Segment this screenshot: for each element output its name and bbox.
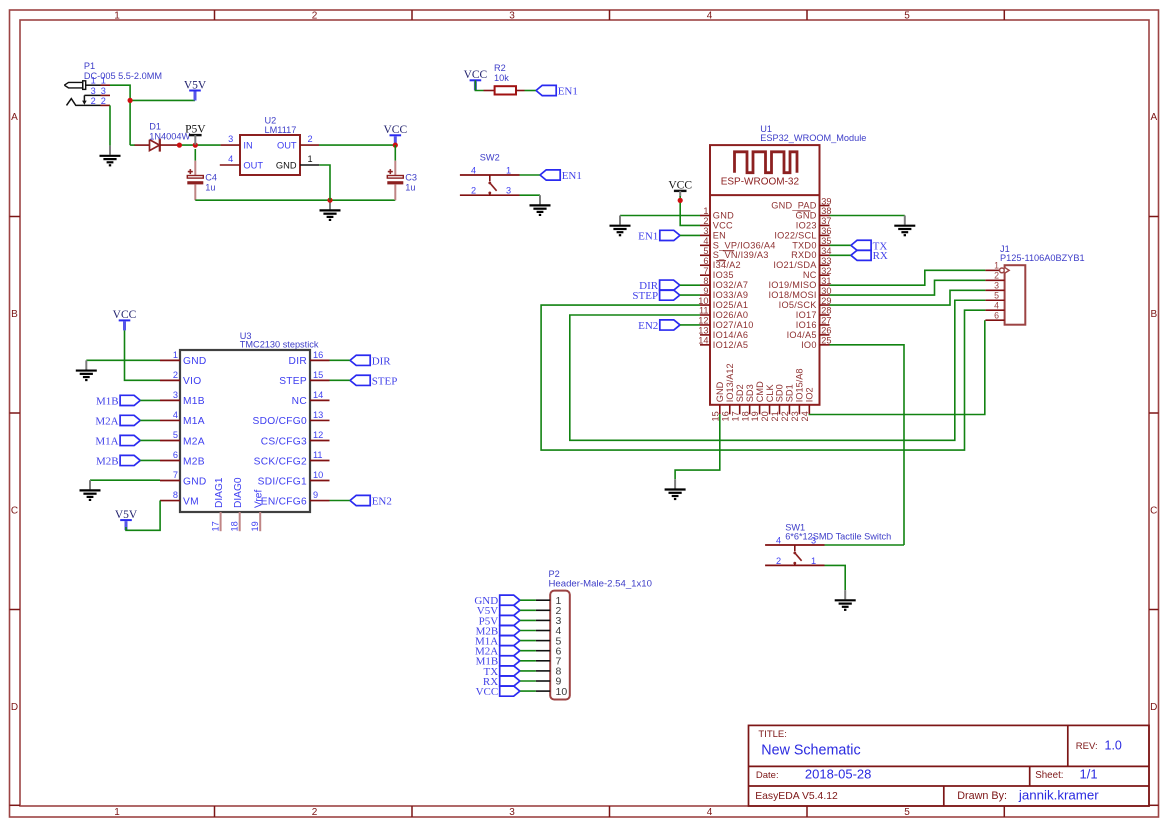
svg-text:EN2: EN2 (638, 320, 658, 332)
connector P1 DC-005 barrel jack symbol (64, 81, 100, 106)
junction VCC node (393, 143, 398, 148)
wire P2.7 to M1B (520, 660, 536, 662)
svg-text:EN1: EN1 (558, 85, 578, 97)
IC U1 ESP32 module body (710, 145, 820, 405)
svg-text:P2: P2 (549, 569, 560, 579)
U2 reference designator (265, 116, 277, 126)
SW1 pin 2 (776, 556, 781, 566)
P2 pin 4 (536, 625, 562, 637)
U1 pin 12 IO27/A10 (698, 316, 753, 330)
svg-text:15: 15 (710, 411, 720, 421)
U3 pin 14 NC (292, 390, 330, 407)
svg-text:1: 1 (308, 154, 313, 164)
svg-text:ESP32_WROOM_Module: ESP32_WROOM_Module (760, 133, 866, 143)
svg-text:VCC: VCC (668, 179, 692, 191)
svg-text:M2A: M2A (183, 436, 205, 447)
svg-text:C: C (1150, 505, 1157, 516)
svg-text:Header-Male-2.54_1x10: Header-Male-2.54_1x10 (549, 579, 652, 590)
U3 pin 11 SCK/CFG2 (254, 450, 330, 467)
svg-text:2: 2 (308, 134, 313, 144)
svg-text:I34/A2: I34/A2 (713, 260, 741, 270)
U1 pin 9 IO33/A9 (700, 286, 748, 300)
U1 pin 22 SD1 (780, 384, 795, 421)
wire SW2.3 to ground (520, 194, 541, 196)
wire SW2.1 to EN1 (520, 174, 541, 176)
svg-text:7: 7 (703, 266, 708, 276)
svg-text:1: 1 (114, 807, 120, 818)
svg-text:IO19/MISO: IO19/MISO (768, 280, 816, 290)
U3 pin 19 Vref (250, 490, 265, 532)
svg-text:14: 14 (698, 336, 708, 346)
U2 value LM1117 (265, 125, 297, 135)
svg-text:3: 3 (509, 10, 515, 21)
svg-text:TMC2130 stepstick: TMC2130 stepstick (240, 340, 319, 350)
svg-text:26: 26 (821, 326, 831, 336)
svg-text:VM: VM (183, 496, 199, 507)
svg-text:IO32/A7: IO32/A7 (713, 280, 748, 290)
svg-text:NC: NC (803, 270, 817, 280)
U1 pin 14 IO12/A5 (698, 336, 748, 350)
svg-text:GND_PAD: GND_PAD (771, 200, 817, 210)
svg-text:EN1: EN1 (638, 230, 658, 242)
U3 pin 13 SDO/CFG0 (253, 410, 330, 427)
svg-text:IO4/A5: IO4/A5 (787, 330, 817, 340)
svg-text:RXD0: RXD0 (791, 250, 817, 260)
SW1 pin 3 (811, 535, 816, 545)
net flag EN2 (U1) (638, 320, 680, 332)
svg-text:STEP: STEP (279, 376, 307, 387)
net flag GND (P2) (474, 595, 520, 607)
U1 pin 2 VCC (700, 216, 733, 230)
net flag RX (P2) (483, 676, 520, 688)
U3 pin 15 STEP (279, 370, 329, 387)
svg-text:17: 17 (730, 411, 740, 421)
U1 pin 7 IO35 (700, 266, 734, 280)
junction VCC at U1 (678, 198, 683, 203)
J1 reference designator (1000, 244, 1010, 254)
net flag M2A (95, 415, 140, 427)
svg-text:IO23: IO23 (796, 220, 817, 230)
U2 pin 4 OUT (220, 154, 264, 170)
svg-text:10: 10 (313, 470, 323, 480)
svg-text:VCC: VCC (113, 309, 137, 321)
svg-text:SD2: SD2 (735, 384, 745, 402)
svg-text:IO27/A10: IO27/A10 (713, 320, 754, 330)
svg-text:IO21/SDA: IO21/SDA (773, 260, 817, 270)
svg-text:4: 4 (776, 535, 781, 545)
svg-text:3: 3 (91, 86, 96, 96)
svg-text:RX: RX (873, 250, 888, 262)
svg-text:16: 16 (720, 411, 730, 421)
svg-text:8: 8 (703, 276, 708, 286)
svg-text:VCC: VCC (713, 220, 733, 230)
svg-text:32: 32 (821, 266, 831, 276)
SW1 reference designator (785, 522, 805, 532)
svg-text:1.0: 1.0 (1105, 738, 1122, 752)
svg-text:4: 4 (173, 410, 178, 420)
net flag P5V (P2) (479, 615, 520, 627)
svg-text:22: 22 (780, 411, 790, 421)
svg-text:7: 7 (173, 470, 178, 480)
svg-text:4: 4 (994, 301, 999, 311)
wire U1.10 to J1.4 (541, 305, 985, 450)
svg-text:5: 5 (173, 430, 178, 440)
wire U1.38 to ground (830, 215, 905, 217)
wire U1.25 to SW1.3 (830, 345, 905, 545)
svg-text:D1: D1 (149, 121, 161, 131)
svg-text:M1B: M1B (96, 395, 119, 407)
svg-text:2: 2 (703, 216, 708, 226)
U1 pin 26 IO4/A5 (787, 326, 832, 340)
svg-text:1/1: 1/1 (1080, 766, 1098, 781)
net flag M1B (96, 395, 140, 407)
svg-text:2: 2 (312, 807, 318, 818)
U3 pin 6 M2B (160, 450, 205, 467)
svg-text:30: 30 (821, 286, 831, 296)
svg-text:3: 3 (173, 390, 178, 400)
U3 value TMC2130 stepstick (240, 340, 319, 350)
U1 pin 19 CMD (750, 381, 765, 422)
svg-text:A: A (1150, 112, 1157, 123)
svg-text:GND: GND (715, 381, 725, 402)
svg-text:3: 3 (811, 535, 816, 545)
R2 pin 2 (516, 90, 525, 92)
svg-text:Date:: Date: (756, 770, 779, 781)
svg-text:GND: GND (276, 160, 297, 170)
svg-text:3: 3 (101, 86, 106, 96)
svg-text:P1: P1 (84, 61, 95, 71)
power flag VCC (U1) (668, 179, 692, 196)
D1 reference designator (149, 121, 161, 131)
svg-text:DIAG1: DIAG1 (214, 477, 225, 508)
wire M2A to U3.4 (140, 419, 160, 421)
SW2 pin 4 (471, 165, 476, 175)
svg-text:GND: GND (713, 210, 734, 220)
svg-text:36: 36 (821, 226, 831, 236)
P2 pin 10 (536, 686, 567, 698)
net flag M2B (P2) (476, 625, 520, 637)
svg-text:SDI/CFG1: SDI/CFG1 (258, 476, 307, 487)
U1 reference designator (760, 124, 772, 134)
wire STEP to U1.9 (680, 294, 700, 296)
U1 antenna glyph (735, 152, 798, 173)
wire U1.1 to ground (620, 215, 700, 217)
wire P2.3 to P5V (520, 619, 536, 621)
SW1 pin 1 (811, 556, 816, 566)
svg-text:Sheet:: Sheet: (1035, 770, 1063, 781)
U1 pin 39 GND_PAD (771, 196, 831, 210)
capacitor C4 1u (187, 149, 217, 200)
svg-text:M2B: M2B (96, 455, 119, 467)
U1 pin 23 IO15/A8 (790, 368, 805, 421)
U1 pin 21 SD0 (770, 384, 785, 421)
svg-text:2: 2 (471, 186, 476, 196)
wire U1.24 to J1.6 (809, 320, 984, 414)
svg-text:IO35: IO35 (713, 270, 734, 280)
U3 pin 16 DIR (289, 350, 330, 367)
wire P2.5 to M1A (520, 640, 536, 642)
svg-text:5: 5 (904, 10, 910, 21)
svg-text:11: 11 (699, 306, 709, 316)
svg-text:NC: NC (292, 396, 307, 407)
svg-text:24: 24 (800, 411, 810, 421)
wire D1 cathode to U2.3 (179, 144, 220, 146)
wire U1.35 to TX (830, 244, 851, 246)
wire P1.1 to junction (110, 85, 130, 145)
wire bottom rail C4-C3 (195, 199, 395, 201)
svg-text:C: C (11, 505, 18, 516)
wire U3.15 to STEP (330, 379, 351, 381)
U3 pin 17 DIAG1 (210, 477, 225, 531)
svg-text:23: 23 (790, 411, 800, 421)
R2 value 10k (494, 73, 509, 83)
SW2 pin 2 (471, 186, 476, 196)
svg-text:VIO: VIO (183, 376, 201, 387)
SW2 pin 1 (506, 165, 511, 175)
ground symbol at SW2 (530, 195, 551, 215)
wire VCC to U1.2 (680, 196, 700, 225)
U1 pin 29 IO5/SCK (779, 296, 832, 310)
svg-text:IO22/SCL: IO22/SCL (774, 230, 816, 240)
net flag EN1 (SW2) (540, 170, 582, 182)
svg-text:M2A: M2A (95, 415, 118, 427)
junction P5V node (193, 143, 198, 148)
wire U1.29 to J1.3 (830, 290, 986, 305)
junction D1 cathode (177, 143, 182, 148)
svg-text:C4: C4 (205, 172, 217, 182)
wire EN2 to U1.12 (680, 324, 700, 326)
SW1 pin 4 (776, 535, 781, 545)
svg-text:4: 4 (471, 165, 476, 175)
svg-text:New Schematic: New Schematic (761, 743, 860, 759)
U1 pin 13 IO14/A6 (698, 326, 748, 340)
P1 reference designator (84, 61, 95, 71)
svg-text:P125-1106A0BZYB1: P125-1106A0BZYB1 (1000, 253, 1085, 263)
U1 pin 30 IO18/MOSI (768, 286, 831, 300)
wire SW1.1 to ground (825, 565, 846, 590)
svg-text:2: 2 (101, 96, 106, 106)
svg-text:C3: C3 (405, 172, 417, 182)
IC U3 TMC2130 body (180, 350, 310, 512)
U1 pin 34 RXD0 (791, 246, 831, 260)
power flag V5V (top) (184, 79, 207, 100)
ground symbol at U1 left (610, 216, 631, 236)
svg-text:16: 16 (313, 350, 323, 360)
svg-text:10k: 10k (494, 73, 509, 83)
U1 pin 11 IO26/A0 (699, 306, 748, 320)
connector P2 body (550, 591, 570, 700)
svg-text:4: 4 (703, 236, 708, 246)
diode D1 1N4004W (134, 139, 179, 152)
U3 pin 12 CS/CFG3 (261, 430, 330, 447)
svg-text:12: 12 (698, 316, 708, 326)
svg-text:M1A: M1A (183, 416, 205, 427)
svg-text:19: 19 (250, 521, 260, 531)
wire VCC to R2 (475, 80, 483, 90)
svg-text:2: 2 (91, 96, 96, 106)
U3 pin 8 VM (160, 490, 199, 507)
svg-text:18: 18 (740, 411, 750, 421)
P2 value Header-Male-2.54_1x10 (549, 579, 652, 590)
U3 pin 1 GND (160, 350, 207, 367)
U1 pin 8 IO32/A7 (700, 276, 748, 290)
ground symbol at U1 right (894, 216, 915, 236)
svg-text:33: 33 (821, 256, 831, 266)
svg-text:jannik.kramer: jannik.kramer (1018, 788, 1099, 803)
resistor R2 10k (495, 86, 516, 94)
svg-text:15: 15 (313, 370, 323, 380)
ground symbol at SW1 (835, 590, 856, 610)
P2 pin 7 (536, 656, 562, 668)
U3 pin 2 VIO (160, 370, 201, 387)
wire U3.9 to EN2 (330, 500, 351, 502)
U1 pin 27 IO16 (796, 316, 832, 330)
svg-text:4: 4 (707, 10, 713, 21)
svg-text:6: 6 (994, 311, 999, 321)
svg-text:1u: 1u (205, 183, 215, 193)
J1 pin 3 (985, 281, 1004, 291)
net flag VCC (P2) (476, 686, 520, 698)
svg-text:V5V: V5V (184, 79, 207, 91)
J1 pin 6 (985, 311, 1004, 321)
svg-text:OUT: OUT (277, 141, 297, 151)
net flag V5V (P2) (477, 605, 520, 617)
wire P2.2 to V5V (520, 609, 536, 611)
P2 pin 1 (536, 595, 562, 607)
ground symbol at U3 pin7 (80, 480, 101, 500)
wire U1.15 to ground (675, 414, 720, 479)
net flag DIR (U1) (639, 280, 680, 292)
svg-text:19: 19 (750, 411, 760, 421)
U1 pin 1 GND (700, 206, 734, 220)
U1 pin 33 IO21/SDA (773, 256, 831, 270)
connector J1 body (1005, 265, 1026, 325)
svg-text:Vref: Vref (254, 490, 265, 508)
wire V5V to U3.8 (126, 501, 160, 531)
net flag M1A (95, 435, 140, 447)
P2 reference designator (549, 569, 560, 579)
wire P2.1 to GND (520, 599, 536, 601)
P1 pin 1 (91, 76, 110, 86)
ground symbol at U2 rail (320, 200, 341, 220)
svg-text:6: 6 (703, 256, 708, 266)
U1 pin 35 TXD0 (792, 236, 831, 250)
svg-text:LM1117: LM1117 (265, 125, 297, 135)
svg-text:B: B (11, 309, 18, 320)
svg-text:11: 11 (313, 450, 323, 460)
P2 pin 9 (536, 676, 562, 688)
wire U2.1 to ground rail (319, 165, 330, 200)
wire D1 anode from P1 (130, 144, 135, 146)
svg-text:EasyEDA V5.4.12: EasyEDA V5.4.12 (755, 791, 838, 802)
wire P2.9 to RX (520, 680, 536, 682)
net flag M1B (P2) (476, 656, 520, 668)
power flag VCC (U3) (113, 309, 137, 330)
wire U3.16 to DIR (330, 359, 351, 361)
U1 pin 18 SD3 (740, 384, 755, 421)
svg-text:SCK/CFG2: SCK/CFG2 (254, 456, 307, 467)
svg-text:IO15/A8: IO15/A8 (795, 368, 805, 402)
svg-text:SW2: SW2 (480, 153, 500, 163)
wire U3.7 to ground (90, 479, 160, 481)
wire junction to V5V (130, 99, 195, 101)
U3 pin 9 EN/CFG6 (261, 490, 330, 507)
wire P1.2 to ground (109, 105, 111, 145)
svg-text:ESP-WROOM-32: ESP-WROOM-32 (721, 176, 800, 187)
U1 pin 16 IO13/A12 (720, 363, 735, 421)
J1 pin 5 (985, 291, 1004, 301)
svg-text:27: 27 (821, 316, 831, 326)
U2 pin 2 OUT (277, 134, 319, 150)
svg-text:1: 1 (703, 206, 708, 216)
power flag VCC (U2 out) (383, 124, 407, 145)
svg-text:EN: EN (713, 230, 726, 240)
net flag EN1 (U1) (638, 230, 680, 242)
net flag RX (851, 250, 888, 262)
net flag M2B (96, 455, 140, 467)
R2 reference designator (494, 63, 506, 73)
U3 pin 4 M1A (160, 410, 205, 427)
svg-text:TXD0: TXD0 (792, 240, 817, 250)
U1 pin 10 IO25/A1 (698, 296, 748, 310)
op-amp U2 LM1117 body (240, 135, 300, 175)
svg-text:5: 5 (904, 807, 910, 818)
svg-text:IO17: IO17 (796, 310, 817, 320)
svg-text:1: 1 (811, 556, 816, 566)
J1 pin 4 (985, 301, 1004, 311)
svg-text:S_VP/IO36/A4: S_VP/IO36/A4 (713, 240, 776, 250)
U1 pin 32 NC (803, 266, 832, 280)
power flag V5V (U3) (115, 509, 138, 530)
wire M1B to U3.3 (140, 399, 160, 401)
J1 pin 1 (985, 261, 1009, 274)
wire U1.11 to J1.5 (570, 300, 986, 440)
svg-text:DC-005 5.5-2.0MM: DC-005 5.5-2.0MM (84, 71, 162, 81)
U1 pin 36 IO22/SCL (774, 226, 831, 240)
ground symbol at U1 pin15 (665, 479, 686, 499)
svg-text:IO18/MOSI: IO18/MOSI (768, 290, 816, 300)
P1 value DC-005 5.5-2.0MM (84, 71, 162, 81)
svg-text:M2B: M2B (183, 456, 205, 467)
svg-text:21: 21 (770, 411, 780, 421)
switch SW2 body (460, 175, 520, 195)
svg-text:39: 39 (821, 196, 831, 206)
U1 pin 38 GND (796, 206, 832, 220)
SW2 pin 3 (506, 186, 511, 196)
R2 pin 1 (484, 90, 495, 92)
svg-text:4: 4 (228, 154, 233, 164)
U3 pin 5 M2A (160, 430, 205, 447)
wire U1.31 to J1.1 (830, 270, 986, 285)
U3 pin 3 M1B (160, 390, 205, 407)
U3 pin 18 DIAG0 (230, 477, 245, 531)
svg-text:1u: 1u (405, 183, 415, 193)
wire M1A to U3.5 (140, 439, 160, 441)
svg-text:B: B (1150, 309, 1157, 320)
wire DIR to U1.8 (680, 284, 700, 286)
svg-text:M1B: M1B (183, 396, 205, 407)
svg-text:18: 18 (230, 521, 240, 531)
U1 pin 5 S_VN/I39/A3 (700, 246, 769, 260)
U1 value ESP32_WROOM_Module (760, 133, 866, 143)
U1 pin 37 IO23 (796, 216, 832, 230)
svg-text:IN: IN (243, 141, 252, 151)
P2 pin 6 (536, 645, 562, 657)
net flag EN2 (U3) (350, 495, 392, 507)
junction at V5V tap (128, 98, 133, 103)
junction ground rail (327, 198, 332, 203)
U2 pin 1 GND (276, 154, 319, 170)
